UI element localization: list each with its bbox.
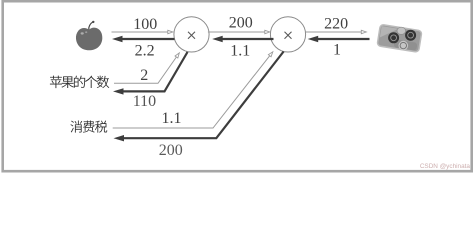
svg-text:220: 220 [324, 16, 348, 33]
svg-text:100: 100 [133, 16, 157, 33]
svg-text:200: 200 [229, 14, 253, 31]
svg-text:1.1: 1.1 [162, 110, 182, 127]
svg-text:1.1: 1.1 [230, 42, 250, 59]
svg-text:2.2: 2.2 [135, 42, 155, 59]
svg-text:110: 110 [133, 93, 156, 110]
svg-text:2: 2 [140, 67, 148, 84]
svg-text:200: 200 [159, 142, 183, 159]
svg-text:1: 1 [333, 41, 341, 58]
